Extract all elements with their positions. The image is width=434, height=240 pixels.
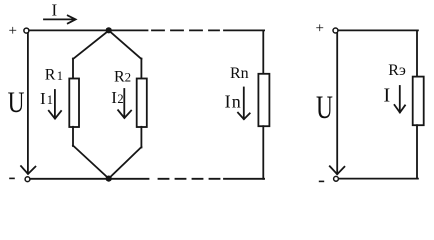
label R2 [114, 68, 131, 85]
terminal - label (right source) [320, 180, 324, 182]
terminal circle top-left [24, 28, 29, 33]
current label I1 [40, 89, 53, 108]
svg-text:U: U [8, 86, 25, 119]
wire top dashed segment [152, 29, 219, 31]
current label I (equivalent) [384, 85, 391, 107]
terminal circle bottom-right source [334, 176, 339, 181]
terminal + label (right source) [316, 21, 324, 37]
arrow I2 [118, 89, 131, 118]
wire lead R2 bottom [140, 127, 142, 148]
wire bottom middle segment [111, 178, 149, 180]
wire bottom (equivalent circuit) [339, 178, 418, 180]
svg-text:2: 2 [125, 70, 132, 85]
terminal circle bottom-left [25, 177, 30, 182]
label Re [388, 62, 406, 79]
terminal + label (left source) [9, 23, 17, 39]
svg-text:2: 2 [117, 92, 123, 106]
node bottom junction [106, 176, 112, 182]
wire slant node to R2 [110, 32, 141, 60]
wire bottom right segment [224, 178, 264, 180]
wire top-left segment [29, 29, 106, 31]
wire lead R1 bottom [72, 127, 74, 146]
terminal - label (left source) [10, 177, 14, 179]
svg-text:+: + [316, 21, 324, 37]
voltage label U (right) [316, 90, 333, 126]
svg-text:1: 1 [57, 69, 63, 83]
svg-text:I: I [111, 88, 117, 107]
wire lead Rn top [262, 30, 264, 74]
arrow In [238, 88, 250, 120]
current label In [225, 91, 242, 111]
terminal circle top-right source [333, 28, 338, 33]
wire lead R2 top [140, 59, 142, 80]
resistor R1 [69, 79, 79, 128]
arrowhead U (left) [21, 166, 35, 174]
svg-text:In: In [225, 91, 242, 111]
wire top right segment [224, 29, 264, 31]
wire slant R2 to bottom node [109, 147, 142, 179]
label Rn [230, 65, 249, 82]
wire slant node to R1 [73, 32, 108, 60]
wire bottom-left segment [30, 178, 106, 180]
wire right vertical top lead [416, 30, 418, 77]
resistor Rn [258, 74, 269, 126]
node top junction [106, 27, 112, 33]
wire slant R1 to bottom node [73, 146, 109, 179]
wire top middle segment [111, 29, 148, 31]
svg-text:I: I [384, 85, 391, 107]
resistor Re [413, 77, 424, 126]
svg-text:I: I [52, 1, 58, 20]
wire top (equivalent circuit) [338, 29, 418, 31]
label R1 [45, 67, 63, 84]
svg-text:U: U [316, 90, 333, 126]
svg-text:+: + [9, 23, 17, 39]
wire right vertical bottom lead [416, 125, 418, 178]
wire bottom dashed segment [159, 178, 223, 180]
svg-text:R: R [45, 67, 56, 84]
current label I [52, 1, 58, 20]
resistor R2 [137, 79, 147, 128]
current label I2 [111, 88, 123, 107]
arrow I [44, 16, 76, 24]
svg-text:1: 1 [47, 93, 53, 107]
svg-text:Rn: Rn [230, 65, 249, 82]
wire left vertical (source) [27, 33, 29, 173]
arrow I1 [49, 90, 61, 119]
wire lead R1 top [72, 59, 74, 80]
wire lead Rn bottom [262, 126, 264, 179]
svg-text:R: R [114, 68, 125, 85]
voltage label U (left) [8, 86, 25, 119]
arrowhead U (right) [330, 166, 345, 174]
arrow I (equivalent) [395, 86, 406, 113]
wire left vertical (equivalent source) [336, 33, 338, 174]
svg-text:I: I [40, 89, 46, 108]
svg-text:Rэ: Rэ [388, 62, 406, 79]
